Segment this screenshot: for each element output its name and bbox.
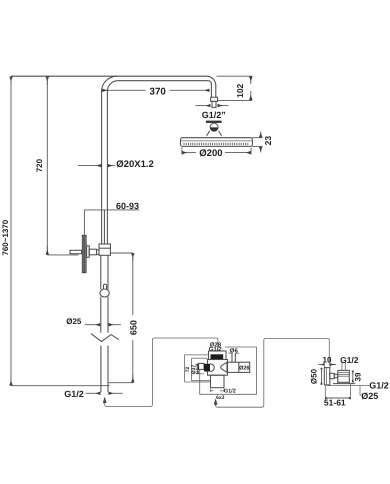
slider stem bbox=[89, 249, 96, 255]
svg-text:G1/2: G1/2 bbox=[209, 346, 223, 353]
mixer wall box bbox=[200, 347, 257, 394]
mixer top flange bbox=[209, 351, 227, 360]
dimension 370 bbox=[102, 89, 145, 91]
slider knob plate bbox=[87, 246, 90, 257]
mixer top seal bbox=[211, 354, 224, 359]
shower head nozzle band bbox=[184, 143, 250, 145]
elbow body bbox=[338, 370, 350, 382]
svg-text:650: 650 bbox=[128, 320, 138, 335]
pipe overlap tube section bbox=[101, 210, 103, 244]
svg-text:Ø25: Ø25 bbox=[361, 391, 378, 401]
dimension 23 bbox=[252, 137, 262, 139]
mixer left port bbox=[199, 363, 204, 369]
svg-text:72: 72 bbox=[185, 367, 191, 373]
svg-text:G1/2: G1/2 bbox=[195, 363, 201, 374]
pipe left bend outer bbox=[102, 76, 117, 91]
leader pipe to mixer detail bbox=[105, 338, 218, 407]
dimension 39 bbox=[352, 371, 354, 374]
svg-text:Ø50: Ø50 bbox=[310, 368, 319, 384]
mixer left dim brackets bbox=[184, 355, 186, 382]
wire top reference line bbox=[11, 75, 207, 77]
pipe lower tube bottom part bbox=[100, 346, 102, 393]
slider block bbox=[99, 244, 110, 255]
pipe lower tube mid part bbox=[100, 297, 102, 333]
mixer bottom thread dim bbox=[209, 389, 211, 392]
dimension Ø50 bbox=[321, 368, 323, 371]
svg-text:G1/2: G1/2 bbox=[369, 381, 389, 391]
pipe top inner line bbox=[118, 80, 208, 82]
Ø6 arrows bbox=[228, 352, 231, 354]
mixer Ø6 port bbox=[231, 353, 233, 362]
dimension G1/2 arm arrows bbox=[196, 105, 211, 107]
elbow G1/2 extension lines bbox=[341, 363, 343, 371]
shower head ball joint bbox=[210, 123, 218, 131]
svg-text:370: 370 bbox=[150, 87, 167, 98]
svg-text:760~1370: 760~1370 bbox=[1, 219, 10, 255]
shower head cone base bbox=[207, 131, 222, 136]
hand shower holder peg bbox=[104, 284, 107, 289]
svg-text:23: 23 bbox=[263, 136, 273, 146]
label Ø25 leader bbox=[360, 386, 362, 395]
svg-text:720: 720 bbox=[35, 158, 44, 172]
label G1/2 elbow right leader bbox=[327, 385, 369, 387]
dimension 760~1370 bbox=[10, 77, 12, 85]
dimension 10 arrows bbox=[323, 363, 325, 368]
mixer main body bbox=[208, 360, 228, 376]
label Ø20X1.2 bbox=[78, 165, 101, 167]
svg-text:G1/2”: G1/2” bbox=[202, 110, 226, 120]
svg-text:G1/2: G1/2 bbox=[224, 388, 236, 394]
pipe lower tube upper part bbox=[100, 255, 102, 289]
svg-text:G1/2: G1/2 bbox=[64, 389, 84, 399]
slider knob bbox=[82, 235, 86, 273]
pipe left bend inner bbox=[107, 81, 118, 92]
dimension 650 bbox=[110, 252, 133, 254]
shower arm thread stem bbox=[212, 101, 216, 107]
svg-text:Ø20X1.2: Ø20X1.2 bbox=[116, 159, 154, 170]
dimension Ø200 bbox=[181, 148, 183, 155]
elbow stem bbox=[330, 373, 334, 378]
mixer bottom stem bbox=[211, 375, 225, 388]
hand shower ball bbox=[100, 289, 109, 297]
mixer right cone bbox=[221, 362, 227, 372]
svg-text:Ø25: Ø25 bbox=[66, 317, 82, 326]
svg-text:6x3: 6x3 bbox=[216, 395, 225, 401]
mixer cartridge bbox=[204, 364, 210, 372]
elbow flange bbox=[324, 368, 330, 385]
pipe break symbol bbox=[91, 334, 119, 342]
dimension 720 bbox=[46, 77, 48, 85]
svg-text:G1/2: G1/2 bbox=[340, 355, 359, 365]
shower head plate bbox=[181, 138, 253, 147]
dimension 102 bbox=[217, 75, 253, 77]
shower arm nut bbox=[211, 97, 218, 101]
dimension 51-61 bbox=[324, 386, 326, 400]
elbow bottom plate bbox=[333, 383, 355, 385]
svg-text:102: 102 bbox=[235, 83, 245, 97]
svg-text:Ø200: Ø200 bbox=[199, 148, 222, 159]
pipe right down segment bbox=[210, 84, 212, 98]
svg-text:51-61: 51-61 bbox=[324, 398, 346, 408]
pipe right bend outer bbox=[207, 76, 216, 85]
svg-text:39: 39 bbox=[353, 372, 362, 381]
shower head ball joint flange bbox=[206, 121, 222, 123]
mixer right port bbox=[227, 362, 250, 372]
pipe right bend inner bbox=[208, 81, 211, 84]
slider handle rod bbox=[70, 250, 82, 253]
leader mixer to wall elbow detail bbox=[216, 338, 330, 407]
pipe upper vertical tube bbox=[101, 91, 103, 210]
svg-text:Ø26: Ø26 bbox=[239, 366, 249, 372]
